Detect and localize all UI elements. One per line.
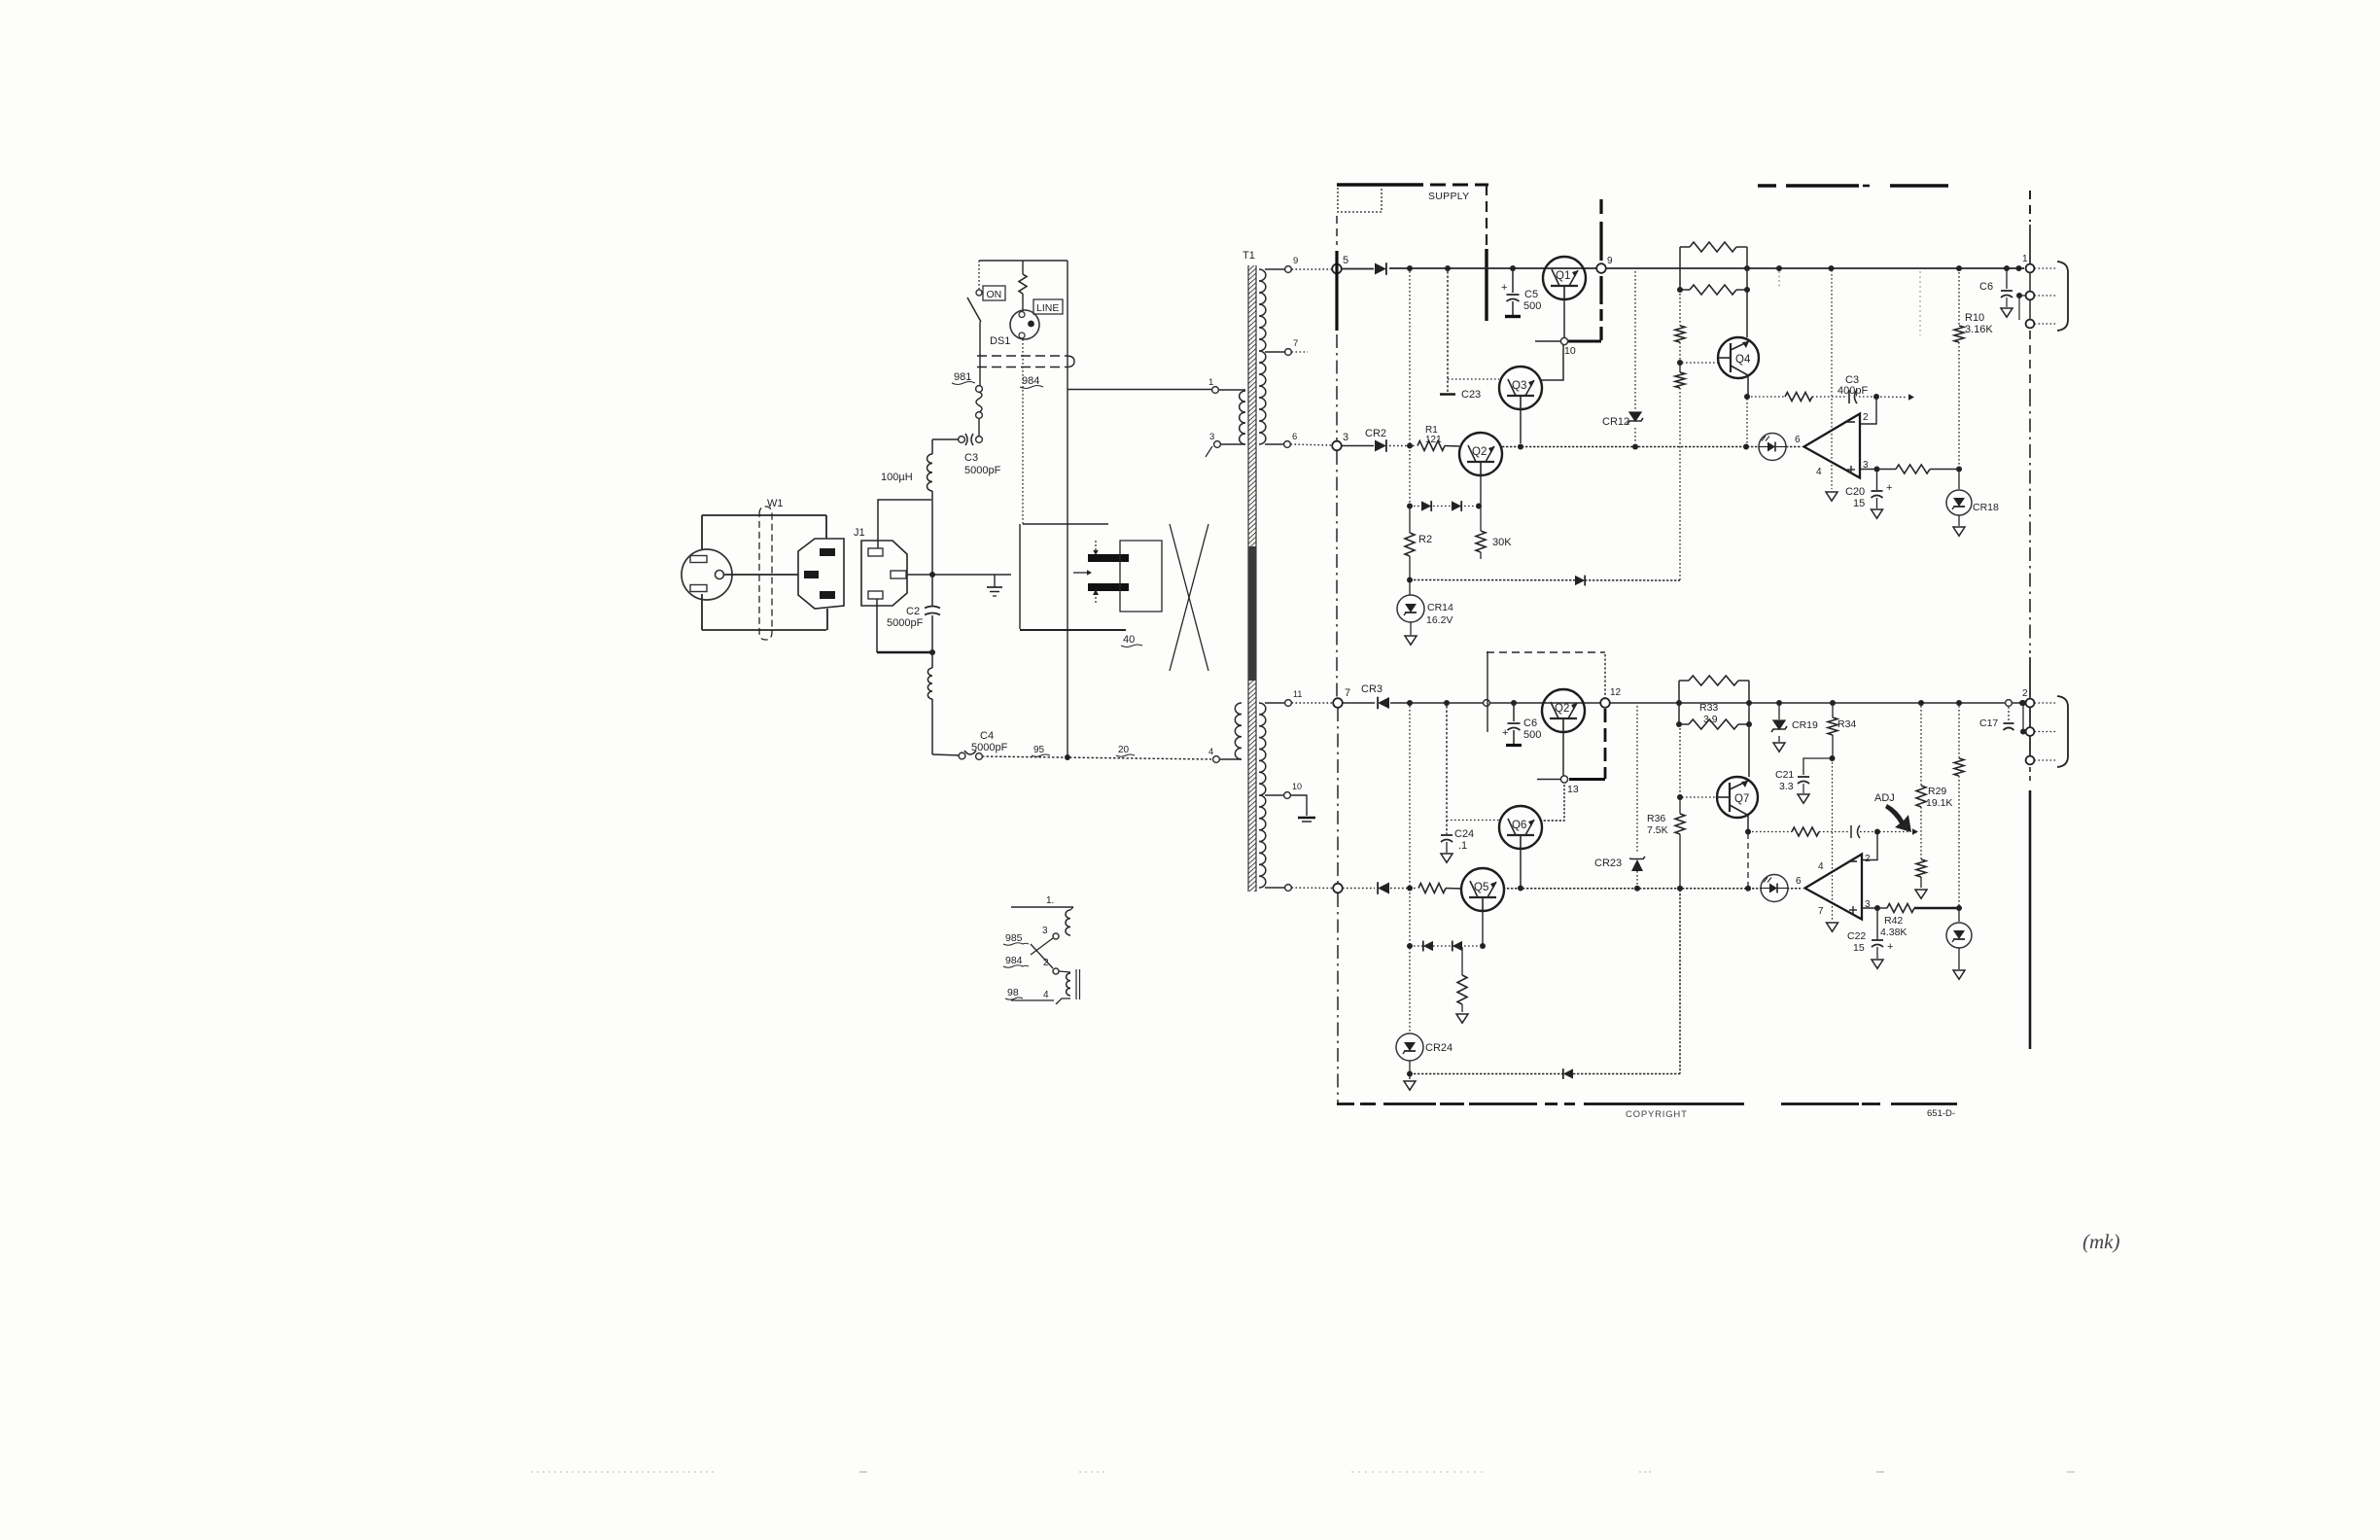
label W1 xyxy=(767,498,784,509)
svg-text:CR12: CR12 xyxy=(1602,416,1629,428)
shield X cross xyxy=(1170,524,1208,671)
svg-text:15: 15 xyxy=(1853,942,1865,954)
boundary x2088 middle xyxy=(2029,393,2031,653)
resistor R29 pot upper xyxy=(1916,786,1926,807)
wire diode row lower xyxy=(1410,945,1480,947)
svg-text:R36: R36 xyxy=(1647,813,1665,824)
terminal 7 xyxy=(1285,349,1292,356)
label R1 xyxy=(1425,425,1442,445)
svg-text:CR18: CR18 xyxy=(1973,502,1999,513)
scan artifact dotted row xyxy=(531,1471,2075,1473)
connector pin 2 lower xyxy=(2026,699,2035,708)
resistor Q4 upper bias xyxy=(1675,326,1685,342)
parallel resistor box upper left xyxy=(1679,247,1681,290)
label CR12 xyxy=(1602,416,1629,428)
label 13 stub xyxy=(1567,784,1579,795)
resistor DS1 dropper xyxy=(1019,261,1027,311)
svg-text:95: 95 xyxy=(1033,745,1045,755)
label R42 xyxy=(1880,915,1907,938)
winding diagram line 1 xyxy=(1011,906,1073,908)
label C24 xyxy=(1454,828,1474,852)
svg-text:+: + xyxy=(1886,482,1892,494)
opamp U2 minus xyxy=(1849,860,1857,862)
label C23 xyxy=(1461,389,1481,401)
node bottom boundary xyxy=(1333,884,1343,893)
wire x959 coil stubs xyxy=(931,652,933,754)
label 1 T1 xyxy=(1208,377,1213,388)
terminal 9 xyxy=(1285,266,1292,273)
wire x1728 to y594 xyxy=(1679,388,1681,580)
wire bus1 left xyxy=(1342,268,1374,270)
zener CR19 xyxy=(1771,720,1787,732)
junction rowL b xyxy=(1480,943,1486,949)
svg-text:T1: T1 xyxy=(1242,250,1255,262)
arrow below lower bar xyxy=(1093,589,1099,605)
label 98 xyxy=(1005,987,1023,999)
boundary x1375 low2 xyxy=(1337,893,1339,1103)
terminal 10 xyxy=(1284,792,1291,799)
capacitor C6 stub xyxy=(2006,268,2008,289)
wire T1 pin1 line xyxy=(1067,389,1211,391)
capacitor C24 xyxy=(1441,835,1452,842)
junction bus1L a xyxy=(1407,700,1413,706)
resistor bus3 xyxy=(1418,884,1446,893)
wire C22 gnd stub xyxy=(1876,947,1878,959)
label R29 xyxy=(1926,786,1952,809)
wire switch top line xyxy=(979,260,1067,262)
label 7 node xyxy=(1345,687,1350,699)
wire CR22 gnd stub xyxy=(1958,948,1960,969)
resistor R29 pot lower xyxy=(1916,859,1926,877)
wire CR18 gnd stub xyxy=(1958,515,1960,526)
supply boundary top dashes xyxy=(1430,184,1488,187)
label T1 xyxy=(1242,250,1255,262)
svg-text:C6: C6 xyxy=(1523,717,1537,729)
wire wiper to pot xyxy=(1860,828,1918,835)
label 95 xyxy=(1032,745,1050,756)
wire CR19 stub xyxy=(1778,706,1780,742)
wire connector top xyxy=(825,515,827,539)
transistor Q3 xyxy=(1499,367,1542,409)
fuse F1 xyxy=(976,386,983,419)
transistor Q7 xyxy=(1717,777,1758,818)
resistor R2 xyxy=(1405,507,1415,578)
svg-text:5: 5 xyxy=(1343,255,1348,266)
svg-text:5000pF: 5000pF xyxy=(964,465,1001,476)
wire bus3 to R xyxy=(1390,888,1417,890)
junction bus2 c xyxy=(1632,444,1638,450)
wire C20 gnd stub xyxy=(1876,498,1878,508)
wire 10 to ground xyxy=(1291,795,1308,816)
ground C22 xyxy=(1872,960,1883,968)
label C5 xyxy=(1523,289,1541,312)
svg-text:15: 15 xyxy=(1853,498,1865,509)
label 984 wd xyxy=(1003,955,1029,967)
heavy dash x1651 xyxy=(1604,709,1607,779)
junction bus1 d xyxy=(1744,265,1750,271)
label conn 1 xyxy=(2022,254,2028,264)
terminal 13 stub xyxy=(1560,776,1567,783)
boundary x1375 low xyxy=(1337,708,1339,883)
svg-text:10: 10 xyxy=(1292,782,1302,791)
ground below row xyxy=(1456,1014,1468,1023)
svg-text:C6: C6 xyxy=(1979,281,1993,293)
node 12 xyxy=(1600,698,1610,708)
bracket upper connector xyxy=(2057,262,2068,331)
ground pin7 U2 xyxy=(1827,923,1838,931)
svg-text:Q4: Q4 xyxy=(1735,354,1751,366)
label pin7 U2 xyxy=(1818,906,1824,917)
junction C21 tap xyxy=(1830,755,1836,761)
label R36 xyxy=(1647,813,1668,836)
supply notch box xyxy=(1338,188,1382,212)
connector pin row3 xyxy=(2026,320,2035,329)
wire T1 pin9 xyxy=(1265,268,1285,270)
label 40 xyxy=(1121,634,1142,647)
svg-text:C23: C23 xyxy=(1461,389,1481,401)
svg-text:19.1K: 19.1K xyxy=(1926,797,1952,809)
wire bottom AC run xyxy=(932,754,1211,759)
junction x1098 bottom xyxy=(1065,754,1070,760)
svg-text:9: 9 xyxy=(1607,256,1613,266)
label pin4 U2 xyxy=(1818,861,1824,872)
svg-text:.1: .1 xyxy=(1458,840,1467,852)
junction bus1L i xyxy=(1956,700,1962,706)
wire 9 to node5 xyxy=(1292,268,1333,270)
junction bus1L b xyxy=(1444,700,1450,706)
T1 secondary winding xyxy=(1259,269,1266,444)
label C6L xyxy=(1523,717,1541,741)
wire pin3 to coil xyxy=(1221,443,1246,445)
svg-text:5000pF: 5000pF xyxy=(971,742,1008,753)
junction bus1 b xyxy=(1445,265,1451,271)
wire 13 stub thin xyxy=(1537,779,1560,781)
junction rowL a xyxy=(1407,943,1413,949)
wire R10 lower xyxy=(1958,342,1960,468)
wire R29 bottom xyxy=(1920,877,1922,888)
wire right vertical x1098 xyxy=(1067,261,1068,757)
svg-text:DS1: DS1 xyxy=(990,335,1010,347)
label CR14 xyxy=(1426,602,1453,626)
wire Q4 emitter xyxy=(1747,375,1749,396)
ground C6 xyxy=(2001,308,2012,317)
resistor R10 xyxy=(1954,326,1964,342)
svg-text:7.5K: 7.5K xyxy=(1647,824,1668,836)
switch S1 xyxy=(967,261,982,386)
terminal wd 2 xyxy=(1053,968,1059,974)
label DS1 xyxy=(990,335,1010,347)
wire CR18 stub xyxy=(1958,470,1960,489)
diode CR2 xyxy=(1375,439,1386,452)
label wd 3 xyxy=(1042,926,1048,936)
label 10 tap xyxy=(1292,782,1302,791)
wire C3 row mid xyxy=(1812,396,1874,398)
wire pin1 to coil xyxy=(1219,389,1246,391)
svg-text:C3: C3 xyxy=(964,452,978,464)
wire CR24 bottom xyxy=(1409,1061,1411,1079)
label pin2 U2 xyxy=(1865,854,1871,864)
wire wd 2 to coil xyxy=(1059,971,1070,972)
label 9 xyxy=(1293,256,1298,266)
svg-text:3.3: 3.3 xyxy=(1779,781,1794,792)
label C6L plus xyxy=(1502,727,1508,739)
svg-text:CR3: CR3 xyxy=(1361,683,1382,695)
dashed box Q2L top xyxy=(1487,651,1605,653)
junction boxL bl xyxy=(1676,721,1682,727)
ground C20 xyxy=(1872,509,1883,518)
terminal 15 on busL xyxy=(1484,700,1490,707)
label ADJ xyxy=(1874,792,1895,804)
boundary x2088 between upins b xyxy=(2029,300,2031,320)
boundary x1375 mid2 xyxy=(1336,451,1338,698)
solid box Q2L left xyxy=(1487,651,1488,732)
wire 7 stub xyxy=(1292,351,1309,353)
label C21 xyxy=(1775,769,1794,792)
cable W1 wire loop bottom xyxy=(702,629,826,631)
junction conn row2 xyxy=(2016,293,2022,298)
capacitor wiper row xyxy=(1851,825,1860,838)
connector pin row2 xyxy=(2026,292,2035,300)
diode on y594 xyxy=(1575,576,1585,586)
svg-text:500: 500 xyxy=(1523,729,1541,741)
wire J1 pin2 center xyxy=(907,574,1011,576)
wire Q2 emitter xyxy=(1480,475,1482,505)
transistor Q2 lower xyxy=(1542,689,1585,732)
junction conn row2 lower xyxy=(2020,729,2026,735)
wire to node bottom xyxy=(1292,887,1334,890)
label wd 2 xyxy=(1043,958,1049,968)
ground C24 xyxy=(1441,854,1452,862)
wire bus2 right xyxy=(1502,446,1801,448)
wire bus1L left xyxy=(1343,702,1375,704)
svg-text:R29: R29 xyxy=(1928,786,1946,797)
terminal 6 xyxy=(1284,441,1291,448)
svg-text:7: 7 xyxy=(1293,338,1298,349)
boundary x2088 top dash xyxy=(2029,191,2031,222)
wire x959 below C2 xyxy=(931,615,933,652)
diode CR14 circled xyxy=(1397,595,1424,622)
terminal 1 of T1 xyxy=(1212,387,1219,394)
label pin3 U1 xyxy=(1863,460,1869,471)
wire pin4 to coil xyxy=(1220,758,1242,760)
terminal 11 xyxy=(1285,700,1292,707)
shield box top xyxy=(1023,523,1108,525)
wire C24 gnd stub xyxy=(1446,842,1448,853)
boundary x2088 above conn2 xyxy=(2029,657,2031,699)
scan stub x1830 xyxy=(1778,271,1780,288)
junction bus1 f xyxy=(1829,265,1835,271)
wire C24 vertical xyxy=(1446,706,1448,834)
adjust arrow xyxy=(1885,804,1911,832)
diode row upper 2 xyxy=(1452,501,1461,511)
terminal 10 stub xyxy=(1560,337,1567,344)
transformer core hatch xyxy=(1248,265,1257,892)
resistor x2015 lower xyxy=(1954,758,1964,776)
wire x1450 to CR24 xyxy=(1409,948,1411,1032)
opamp U1 plus xyxy=(1847,466,1855,473)
T1 primary winding xyxy=(1240,391,1245,444)
label C3 xyxy=(964,452,1001,476)
junction y1105 xyxy=(1407,1071,1413,1077)
junction row b xyxy=(1476,504,1482,509)
svg-text:R34: R34 xyxy=(1837,718,1856,730)
wire x1728 mid xyxy=(1679,342,1681,361)
label conn 2 xyxy=(2022,688,2028,699)
label CR23 xyxy=(1594,857,1622,869)
label J1 xyxy=(854,527,865,539)
svg-text:3: 3 xyxy=(1343,432,1348,443)
label 9 node xyxy=(1607,256,1613,266)
opamp U1 minus xyxy=(1847,421,1855,423)
label CR19 xyxy=(1792,719,1818,731)
junction bus2 d xyxy=(1743,444,1749,450)
capacitor C17 stub xyxy=(2008,707,2010,721)
wire Q3 collector xyxy=(1541,345,1563,380)
svg-text:5000pF: 5000pF xyxy=(887,617,924,629)
resistor R33b xyxy=(1679,719,1749,729)
winding wd lower coil xyxy=(1067,973,1070,996)
svg-text:1: 1 xyxy=(1208,377,1213,388)
label R2 xyxy=(1418,534,1432,545)
junction bus1 i xyxy=(2016,265,2022,271)
svg-text:9: 9 xyxy=(1293,256,1298,266)
junction bus1 e xyxy=(1776,265,1782,271)
label 20 xyxy=(1116,745,1135,756)
label 10 stub xyxy=(1564,345,1576,357)
boundary x1375 mid xyxy=(1336,334,1338,440)
ground CR14 xyxy=(1405,636,1417,645)
junction pin3 xyxy=(1874,467,1880,472)
boundary x2088 dash below xyxy=(2029,767,2031,784)
arrow between bars xyxy=(1073,570,1092,576)
connector J1 body xyxy=(861,541,907,606)
wire T2 pin10 xyxy=(1265,794,1284,796)
svg-text:Q6: Q6 xyxy=(1512,820,1526,831)
wire C6 gnd stub xyxy=(2006,297,2008,307)
wire Q2L emitter down xyxy=(1562,732,1564,776)
label pin6 U1 xyxy=(1795,435,1801,445)
svg-text:651-D-: 651-D- xyxy=(1927,1108,1955,1119)
wire Q6 collector xyxy=(1543,785,1564,821)
bar C6L negative xyxy=(1506,744,1522,747)
resistor wiper row xyxy=(1792,827,1819,836)
junction x959 at 671 xyxy=(929,649,935,655)
junction bus1L d xyxy=(1676,700,1682,706)
svg-text:J1: J1 xyxy=(854,527,865,539)
wire C21 stub xyxy=(1803,758,1832,775)
transistor Q1 xyxy=(1543,257,1586,299)
boundary x1375 dashes upper xyxy=(1336,216,1338,245)
wire bus3 left xyxy=(1343,888,1375,890)
wire R to Q5 xyxy=(1446,888,1462,891)
svg-text:SUPPLY: SUPPLY xyxy=(1428,191,1469,202)
winding wd upper coil xyxy=(1066,907,1073,935)
wire J1 pin3 horiz heavy xyxy=(877,651,932,654)
ferrite bar lower xyxy=(1088,583,1129,591)
diode row lower 2 xyxy=(1452,941,1462,952)
wire R29 mid xyxy=(1920,807,1922,859)
wire Q3 base row xyxy=(1448,378,1499,380)
wire feedback row y594 xyxy=(1410,579,1680,582)
wire x1450 upper vertical xyxy=(1409,271,1411,504)
wire R1 to Q2 xyxy=(1445,445,1459,448)
svg-text:C5: C5 xyxy=(1524,289,1538,300)
wire CR14 stub xyxy=(1409,581,1411,595)
shield box left xyxy=(1019,524,1021,629)
bar C5 negative xyxy=(1505,315,1521,318)
wire wiper row mid xyxy=(1819,831,1848,833)
boundary x2088 below conn xyxy=(2029,331,2031,393)
transistor Q5 xyxy=(1461,868,1504,911)
wire wd bottom xyxy=(1011,998,1070,1004)
boundary x1529 heavy xyxy=(1485,249,1487,321)
wire wd cross b xyxy=(1031,944,1053,968)
label COPYRIGHT xyxy=(1626,1109,1688,1120)
svg-text:CR23: CR23 xyxy=(1594,857,1622,869)
diode CR24 circled xyxy=(1396,1033,1423,1061)
wire conn row2 xyxy=(2019,296,2025,320)
diode CR18 circled xyxy=(1946,490,1972,515)
capacitor C5 stub xyxy=(1512,268,1514,293)
wire Q7e to optoline xyxy=(1747,833,1749,886)
ground C21 xyxy=(1798,794,1809,803)
label 981 xyxy=(952,371,975,385)
wire pin2 link xyxy=(1861,398,1876,424)
svg-text:7: 7 xyxy=(1818,906,1824,917)
svg-text:121: 121 xyxy=(1425,435,1442,445)
wire diode row upper xyxy=(1410,506,1476,507)
scan stub x1975 xyxy=(1919,271,1921,335)
wire DS1 down dotted xyxy=(1022,339,1024,524)
junction bus1L f xyxy=(1776,700,1782,706)
wire Q7 base xyxy=(1682,796,1717,798)
junction bus1 h xyxy=(2004,265,2010,271)
terminal 4 T2 xyxy=(1213,756,1220,763)
wire Q1 emitter down xyxy=(1563,299,1565,338)
junction R10 bottom xyxy=(1956,467,1962,472)
bracket lower connector xyxy=(2057,696,2068,767)
label 4 T2 xyxy=(1208,747,1213,757)
svg-text:10: 10 xyxy=(1564,345,1576,357)
junction box br xyxy=(1744,287,1750,293)
node 5 xyxy=(1332,264,1342,274)
wire pin4 vertical xyxy=(1831,270,1833,489)
svg-text:ON: ON xyxy=(987,289,1002,300)
supply boundary top heavy xyxy=(1337,183,1423,187)
inductor 100uH xyxy=(927,454,932,491)
wire pin3 out lower xyxy=(1862,907,1874,909)
svg-text:C22: C22 xyxy=(1847,930,1866,942)
junction row a xyxy=(1407,504,1413,509)
boundary x2088 upper stub xyxy=(2029,225,2031,264)
capacitor C20 stub xyxy=(1876,469,1878,490)
wire x2015 lower mid xyxy=(1958,776,1960,906)
capacitor C21 xyxy=(1798,777,1809,784)
svg-text:Q2: Q2 xyxy=(1472,446,1487,458)
capacitor C3 fb xyxy=(1849,390,1857,403)
wire CR12 vertical lower xyxy=(1634,428,1636,443)
capacitor C4 feedthrough xyxy=(959,751,982,759)
wire T2 pin bottom xyxy=(1265,887,1285,889)
wire Q4 base xyxy=(1682,362,1718,364)
wire R29 top xyxy=(1920,706,1922,786)
svg-text:R33: R33 xyxy=(1699,702,1718,714)
label CR24 xyxy=(1425,1042,1452,1054)
svg-text:12: 12 xyxy=(1610,687,1622,698)
optocoupler lower xyxy=(1761,875,1788,902)
capacitor C6L stub xyxy=(1513,703,1515,721)
svg-text:R42: R42 xyxy=(1884,915,1903,927)
